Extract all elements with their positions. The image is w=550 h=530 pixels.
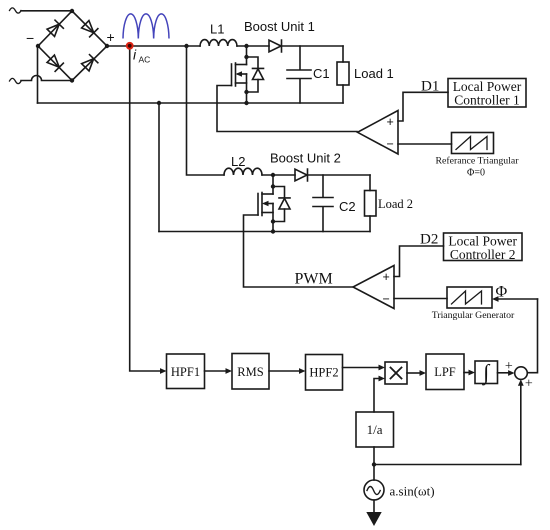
diode Q1 body diode bbox=[247, 57, 264, 92]
wire RMS to HPF2 bbox=[269, 370, 300, 372]
wire sine source to ground arrow bbox=[373, 500, 375, 512]
waveform rectified sine blue bbox=[123, 14, 169, 39]
svg-text:+: + bbox=[387, 115, 394, 129]
op-amp U1 comparator boost 1 bbox=[358, 111, 399, 155]
bridge diode D-LB bbox=[47, 55, 64, 72]
svg-text:Boost Unit 2: Boost Unit 2 bbox=[270, 151, 341, 166]
arrowhead into summing node left bbox=[508, 370, 514, 376]
bridge edge top-right bbox=[72, 11, 107, 46]
reference triangular sawtooth waveform bbox=[456, 137, 487, 150]
svg-text:Controller 1: Controller 1 bbox=[454, 93, 520, 108]
AC source terminal top tilde bbox=[10, 8, 22, 13]
bridge edge left-top bbox=[38, 11, 72, 46]
arrowhead into multiplier lower input bbox=[379, 376, 386, 382]
sine source waveform bbox=[367, 487, 380, 495]
wire AC input top bbox=[21, 10, 72, 12]
svg-text:−: − bbox=[383, 292, 390, 306]
1/a box bbox=[356, 412, 394, 447]
wire DC negative rail bottom bbox=[38, 102, 344, 104]
wire L2 feed from top rail bbox=[187, 46, 225, 175]
load 2 resistor leads bbox=[369, 175, 371, 232]
local power controller 2 box bbox=[444, 233, 523, 261]
integrator box bbox=[475, 361, 498, 384]
wire sine node to bottom riser bbox=[374, 464, 521, 466]
wire boost 2 output rail bbox=[308, 174, 371, 176]
svg-text:1/a: 1/a bbox=[367, 422, 383, 437]
wire U1 minus input to reference triangular bbox=[398, 143, 452, 145]
junction sine source node bbox=[372, 462, 376, 466]
wire U1 plus input to local power controller 1 bbox=[398, 92, 448, 121]
svg-text:C1: C1 bbox=[313, 66, 330, 81]
summing node circle bbox=[515, 367, 528, 380]
wire DC positive rail top bbox=[107, 45, 343, 47]
inductor L1 bbox=[200, 40, 237, 46]
svg-text:PWM: PWM bbox=[295, 271, 333, 288]
wire i_AC sense line down to HPF1 bbox=[130, 46, 163, 371]
ground arrow at sine source bbox=[366, 512, 381, 526]
bridge diode D-TR bbox=[81, 20, 98, 37]
diode Q1 body diode triangle bbox=[253, 69, 264, 80]
wire multiplier to LPF bbox=[407, 372, 421, 374]
diode Q2 body diode triangle bbox=[279, 198, 290, 209]
junction bridge top node bbox=[70, 9, 74, 13]
svg-text:Triangular Generator: Triangular Generator bbox=[432, 310, 515, 321]
svg-text:−: − bbox=[387, 137, 394, 151]
arrowhead into RMS bbox=[226, 368, 233, 374]
svg-text:HPF2: HPF2 bbox=[309, 365, 338, 379]
arrowhead into multiplier upper input bbox=[379, 365, 386, 371]
wire boost 2 bottom rail bbox=[159, 231, 370, 233]
load 2 resistor body bbox=[365, 191, 377, 217]
junction Q2 source on boost2 bottom rail bbox=[271, 229, 275, 233]
wire 1/a to multiplier bbox=[374, 379, 380, 413]
svg-text:HPF1: HPF1 bbox=[171, 365, 200, 379]
junction Q1 source split bbox=[244, 90, 248, 94]
junction bridge right node bbox=[105, 44, 109, 48]
wire negative rail to boost 2 bottom rail bbox=[158, 103, 160, 232]
transistor Q2 MOSFET boost unit 2 bbox=[258, 175, 273, 232]
svg-text:RMS: RMS bbox=[237, 365, 263, 379]
HPF2 box bbox=[306, 355, 343, 391]
arrowhead into integrator bbox=[469, 370, 476, 376]
diode boost unit 1 bbox=[269, 40, 282, 52]
wire bottom riser into summing node bbox=[520, 385, 522, 465]
svg-text:D1: D1 bbox=[421, 79, 439, 95]
reference triangular box bbox=[452, 133, 494, 154]
svg-text:Referance Triangular: Referance Triangular bbox=[436, 156, 520, 167]
wire phi feedback into triangular generator bbox=[497, 298, 538, 300]
inductor L2 bbox=[224, 168, 262, 175]
junction L2 feed on top rail bbox=[184, 44, 188, 48]
svg-text:L1: L1 bbox=[210, 22, 224, 37]
svg-text:Load 1: Load 1 bbox=[354, 66, 394, 81]
wire U2 minus input to triangular generator bbox=[394, 298, 447, 300]
junction Q1 drain split bbox=[244, 55, 248, 59]
capacitor C2 bbox=[313, 175, 333, 232]
wire integrator to summing node bbox=[498, 372, 510, 374]
arrowhead into HPF2 bbox=[299, 368, 306, 374]
wire 1/a down to sine source bbox=[373, 447, 375, 480]
junction bridge left node bbox=[36, 44, 40, 48]
AC source terminal bottom tilde bbox=[10, 78, 22, 83]
HPF1 box bbox=[167, 354, 205, 389]
wire HPF1 to RMS bbox=[205, 370, 227, 372]
wire AC input bottom with hop over DC- wire bbox=[21, 76, 72, 81]
wire feedback riser from summing node bbox=[527, 299, 537, 373]
svg-text:C2: C2 bbox=[339, 199, 356, 214]
wire L2 to boost diode 2 bbox=[262, 174, 295, 176]
junction bridge bottom node bbox=[70, 78, 74, 82]
junction Q1 source on bottom rail bbox=[244, 101, 248, 105]
junction L2 to Q2 drain bbox=[271, 173, 275, 177]
arrowhead into LPF bbox=[420, 370, 427, 376]
svg-text:Boost Unit 1: Boost Unit 1 bbox=[244, 19, 315, 34]
bridge edge bottom-right bbox=[72, 46, 107, 81]
svg-text:−: − bbox=[26, 30, 34, 46]
arrowhead into summing node bottom bbox=[518, 379, 524, 386]
wire U2 plus input to local power controller 2 bbox=[394, 246, 444, 277]
wire HPF2 to multiplier bbox=[343, 367, 380, 369]
svg-text:a.sin(ωt): a.sin(ωt) bbox=[390, 484, 435, 499]
junction negative rail to boost2 bbox=[157, 101, 161, 105]
arrowhead into triangular generator right bbox=[492, 296, 499, 302]
arrowhead into HPF1 bbox=[160, 368, 167, 374]
triangular generator sawtooth waveform bbox=[452, 291, 482, 304]
svg-text:LPF: LPF bbox=[434, 365, 456, 379]
junction Q2 drain split bbox=[271, 184, 275, 188]
svg-text:L2: L2 bbox=[231, 154, 245, 169]
wire DC negative from bridge left node down bbox=[37, 46, 39, 103]
bridge diode D-LT bbox=[47, 20, 64, 37]
local power controller 1 box bbox=[448, 79, 526, 108]
transistor Q1 MOSFET boost unit 1 bbox=[232, 46, 247, 103]
sine source circle bbox=[364, 480, 384, 500]
junction Q2 source split bbox=[271, 219, 275, 223]
svg-text:+: + bbox=[505, 359, 513, 374]
transistor Q2 body arrow bbox=[262, 201, 269, 207]
load 1 resistor body bbox=[337, 62, 349, 85]
svg-text:∫: ∫ bbox=[481, 360, 491, 386]
transistor Q1 body arrow bbox=[236, 71, 243, 77]
bridge edge left-bottom bbox=[38, 46, 72, 81]
svg-text:Load 2: Load 2 bbox=[378, 197, 413, 211]
RMS box bbox=[232, 354, 269, 390]
wire gate Q1 to comparator U1 output bbox=[217, 86, 357, 132]
svg-text:+: + bbox=[107, 29, 115, 45]
multiplier cross symbol bbox=[391, 368, 402, 379]
triangular generator box bbox=[447, 287, 492, 308]
diode Q2 body diode bbox=[273, 187, 290, 222]
svg-text:+: + bbox=[383, 270, 390, 284]
op-amp U2 PWM comparator bbox=[353, 266, 394, 309]
diode boost unit 2 bbox=[295, 169, 308, 181]
svg-text:i: i bbox=[133, 47, 137, 63]
svg-text:+: + bbox=[525, 377, 533, 392]
node i_AC red marker bbox=[126, 42, 134, 50]
LPF box bbox=[426, 354, 464, 390]
multiplier box bbox=[385, 362, 407, 384]
capacitor C1 bbox=[287, 46, 311, 103]
svg-text:Φ: Φ bbox=[496, 284, 508, 301]
load 1 resistor leads bbox=[342, 46, 344, 103]
svg-text:AC: AC bbox=[139, 54, 151, 64]
wire gate Q2 to PWM comparator U2 output bbox=[244, 215, 353, 287]
junction Q1 drain on top rail bbox=[244, 44, 248, 48]
wire LPF to integrator bbox=[464, 372, 470, 374]
bridge diode D-BR bbox=[81, 55, 98, 72]
svg-text:D2: D2 bbox=[420, 232, 438, 248]
svg-text:Φ=0: Φ=0 bbox=[467, 168, 485, 179]
svg-text:Controller 2: Controller 2 bbox=[450, 247, 516, 262]
